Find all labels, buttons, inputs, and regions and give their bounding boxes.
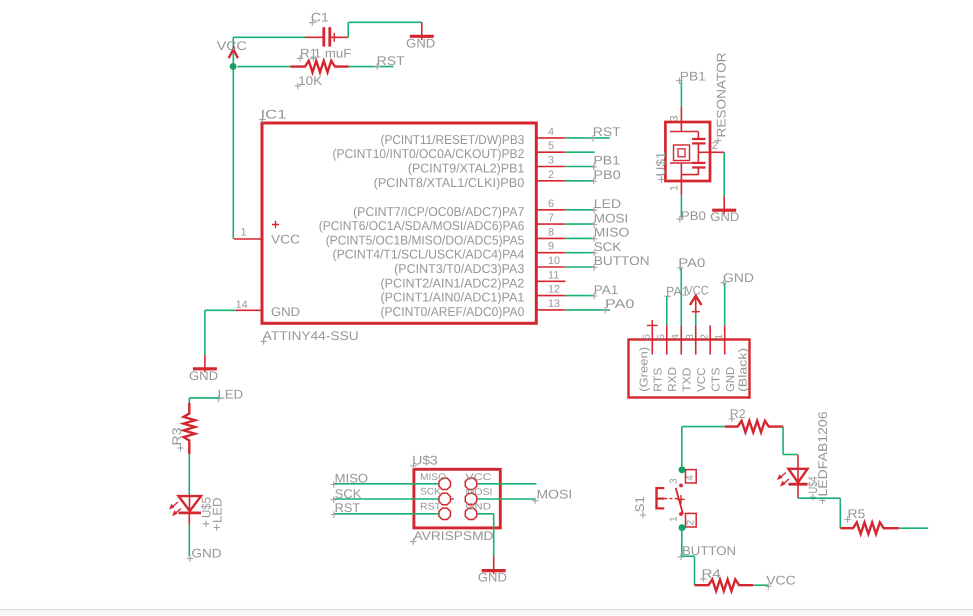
net label LED (left branch) [215, 387, 243, 402]
label R3 (rotated) [170, 428, 184, 452]
svg-text:PB1: PB1 [593, 154, 620, 168]
svg-text:LED: LED [594, 197, 621, 211]
wire from IC pin at y=152.2 [565, 151, 595, 153]
wire R5 output [899, 527, 928, 529]
svg-text:2: 2 [700, 334, 711, 340]
svg-text:(PCINT2/AIN1/ADC2)PA2: (PCINT2/AIN1/ADC2)PA2 [381, 275, 525, 290]
net label GND (below U$5) [187, 547, 222, 562]
wire VCC vertical to IC pin 1 [232, 37, 234, 239]
net label RST (at R1) [374, 54, 405, 70]
net label BUTTON (at S1) [678, 544, 736, 560]
svg-text:(PCINT0/AREF/ADC0)PA0: (PCINT0/AREF/ADC0)PA0 [381, 304, 525, 319]
ISP pads right column [465, 478, 476, 519]
wire ISP GND right [477, 513, 494, 515]
net label PA0 (FTDI) [677, 256, 705, 271]
label R1 [297, 46, 317, 61]
svg-text:(Black): (Black) [738, 348, 750, 392]
pin 10 stub (PA3) [536, 255, 565, 267]
FTDI pin stub 1 [724, 325, 726, 354]
svg-text:(PCINT6/OC1A/SDA/MOSI/ADC6)PA6: (PCINT6/OC1A/SDA/MOSI/ADC6)PA6 [319, 218, 525, 233]
svg-text:9: 9 [548, 241, 554, 253]
switch S1 [657, 470, 697, 527]
wire IC pin 14 to GND (vertical) [204, 310, 206, 355]
net label SCK (IC right) [591, 240, 622, 256]
pin 11 stub (PA2) [536, 269, 565, 281]
svg-text:BUTTON: BUTTON [594, 254, 650, 268]
ground GND (below IC1) [189, 355, 218, 383]
unrouted cross (RTS pin) [647, 320, 658, 331]
wire S1 to BUTTON label [681, 528, 683, 557]
svg-text:GND: GND [710, 210, 739, 224]
net label RST (IC right) [590, 125, 621, 141]
svg-text:U$1: U$1 [654, 152, 668, 177]
value ATTINY44-SSU [260, 329, 358, 345]
wire from IC pin at y=180.8 [565, 180, 594, 182]
wire C1 to GND (vertical) [347, 22, 349, 37]
wire ISP GND down [493, 514, 495, 557]
svg-text:3: 3 [669, 115, 681, 121]
wire resonator pin 1 to PB0 label [680, 195, 682, 217]
wire TXD to PA0 label [680, 268, 682, 326]
wire R3 to LED U$5 [188, 454, 190, 496]
wire LED U$4 to R5 (vertical) [839, 498, 841, 528]
net label PA1 (IC right) [591, 283, 618, 299]
net label MISO (IC right) [591, 226, 630, 242]
label U$4 (rotated) [806, 477, 820, 501]
wire LED U$5 to GND label [188, 525, 190, 557]
svg-text:VCC: VCC [766, 574, 796, 588]
svg-text:GND: GND [466, 502, 492, 513]
svg-text:(PCINT3/T0/ADC3)PA3: (PCINT3/T0/ADC3)PA3 [394, 261, 524, 276]
wire from IC pin at y=209.8 [565, 209, 594, 211]
svg-text:MOSI: MOSI [594, 211, 629, 225]
svg-text:MOSI: MOSI [466, 487, 493, 498]
svg-text:(PCINT1/AIN0/ADC1)PA1: (PCINT1/AIN0/ADC1)PA1 [381, 290, 525, 305]
label U$1 (rotated) [654, 152, 668, 183]
svg-text:1 muF: 1 muF [314, 46, 352, 60]
net label MOSI (IC right) [591, 211, 628, 227]
pin 4 stub (PB3) [536, 126, 565, 138]
label S1 (rotated) [633, 496, 647, 518]
LED U$4 [777, 455, 808, 499]
label U$5 (rotated) [200, 497, 214, 527]
svg-text:(PCINT8/XTAL1/CLKI)PB0: (PCINT8/XTAL1/CLKI)PB0 [374, 175, 525, 190]
label R5 [844, 507, 865, 523]
ground GND (top, at C1) [406, 22, 435, 50]
svg-text:8: 8 [548, 226, 554, 238]
net label MOSI (ISP right) [532, 488, 572, 504]
connector FTDI header body [629, 340, 750, 398]
resistor R4 [695, 579, 754, 591]
net label PA1 (FTDI) [665, 284, 689, 299]
svg-text:2: 2 [548, 169, 554, 181]
svg-text:VCC: VCC [696, 368, 708, 392]
svg-text:AVRISPSMD: AVRISPSMD [414, 529, 494, 543]
wire resonator pin 2 to GND [723, 152, 725, 196]
wire BUTTON down to R4 [694, 556, 696, 585]
net label LED (IC right) [591, 197, 621, 213]
svg-text:3: 3 [548, 155, 554, 167]
pin 2 stub (PB0) [536, 169, 565, 181]
label IC1 [259, 107, 286, 122]
net label PB0 (IC right) [591, 168, 621, 184]
value RESONATOR (rotated) [715, 53, 729, 144]
svg-text:3: 3 [685, 334, 696, 340]
svg-text:11: 11 [548, 269, 559, 281]
FTDI pin stub 5 [666, 325, 668, 354]
svg-text:(PCINT10/INT0/OC0A/CKOUT)PB2: (PCINT10/INT0/OC0A/CKOUT)PB2 [333, 146, 525, 161]
wire ISP MOSI right [477, 498, 535, 500]
svg-text:S1: S1 [633, 496, 647, 512]
power symbol VCC (FTDI) [690, 296, 702, 314]
value 10K (R1 value) [295, 74, 323, 89]
wire C1 to GND (horizontal) [348, 21, 422, 23]
svg-text:4: 4 [671, 334, 682, 340]
wire R2 to LED U$4 (horizontal) [783, 454, 797, 456]
power symbol VCC (top left) [229, 46, 238, 59]
net label PB1 (IC right) [591, 154, 621, 170]
label U$3 [410, 454, 438, 470]
svg-text:MISO: MISO [335, 472, 369, 486]
svg-text:13: 13 [548, 298, 560, 310]
svg-text:5: 5 [656, 334, 667, 340]
svg-text:GND: GND [723, 271, 754, 285]
svg-text:1: 1 [669, 185, 681, 191]
net label PA0 (IC right) [602, 297, 634, 313]
wire ISP VCC right [477, 483, 536, 485]
svg-text:6: 6 [642, 334, 653, 340]
svg-text:LEDFAB1206: LEDFAB1206 [816, 412, 830, 497]
svg-text:(PCINT4/T1/SCL/USCK/ADC4)PA4: (PCINT4/T1/SCL/USCK/ADC4)PA4 [333, 247, 525, 262]
svg-text:14: 14 [236, 299, 248, 311]
svg-text:10K: 10K [298, 74, 323, 88]
svg-text:1: 1 [714, 334, 725, 340]
wire from IC pin at y=295.6 [565, 295, 594, 297]
svg-text:PB0: PB0 [681, 209, 706, 223]
wire from IC pin at y=224.1 [565, 223, 594, 225]
svg-text:MISO: MISO [594, 226, 630, 240]
svg-text:ATTINY44-SSU: ATTINY44-SSU [263, 329, 359, 343]
svg-text:RST: RST [420, 501, 441, 512]
svg-text:RST: RST [377, 54, 405, 68]
svg-text:GND: GND [406, 36, 435, 50]
svg-text:4: 4 [685, 475, 696, 481]
pin 8 stub (PA5) [536, 226, 565, 238]
svg-text:RXD: RXD [667, 367, 679, 392]
wire LED label to R3 [188, 398, 190, 403]
svg-text:(PCINT5/OC1B/MISO/DO/ADC5)PA5: (PCINT5/OC1B/MISO/DO/ADC5)PA5 [326, 232, 525, 247]
junction S1 top [679, 466, 686, 473]
svg-text:LED: LED [218, 387, 244, 401]
wire SCK label to ISP [333, 498, 438, 500]
wire MISO label to ISP [333, 483, 438, 485]
svg-text:1: 1 [669, 516, 680, 522]
net label SCK (ISP left) [331, 487, 362, 503]
resonator U$1 body [665, 107, 711, 181]
wire RST label to ISP [333, 513, 438, 515]
svg-text:PA0: PA0 [605, 297, 634, 311]
resistor R2 [725, 421, 783, 433]
pin stub SCK pad [451, 498, 454, 500]
pin 9 stub (PA4) [536, 241, 565, 253]
svg-text:RTS: RTS [653, 367, 665, 392]
svg-text:GND: GND [271, 305, 300, 319]
capacitor C1 [305, 27, 348, 46]
wire from IC pin at y=238.4 [565, 237, 594, 239]
pin 1 stub (resonator) [680, 181, 682, 195]
svg-text:RESONATOR: RESONATOR [715, 53, 729, 138]
wire down to S1 pin 4 [681, 427, 683, 470]
net label BUTTON (IC right) [591, 254, 650, 270]
IC IC1 ATTINY44-SSU body [262, 123, 536, 323]
value LED (rotated, U$5) [211, 498, 225, 531]
svg-text:10: 10 [548, 255, 560, 267]
svg-text:VCC: VCC [271, 233, 300, 247]
wire VCC pin to VCC symbol [695, 314, 697, 326]
svg-text:VCC: VCC [217, 39, 247, 53]
svg-text:(PCINT9/XTAL2)PB1: (PCINT9/XTAL2)PB1 [408, 161, 524, 176]
wire from IC pin at y=267.0 [565, 266, 595, 268]
svg-text:GND: GND [192, 547, 222, 561]
svg-text:R3: R3 [170, 428, 184, 446]
net label VCC (at R4) [765, 574, 796, 590]
svg-text:5: 5 [548, 140, 554, 152]
wire R2 to LED U$4 (vertical) [782, 427, 784, 455]
svg-text:7: 7 [548, 212, 554, 224]
wire from IC pin at y=166.5 [565, 166, 595, 168]
pin 6 stub (PA7) [536, 198, 565, 210]
svg-text:GND: GND [478, 571, 507, 585]
ISP pad labels [420, 472, 493, 513]
pin 3 stub (PB1) [536, 155, 565, 167]
svg-text:PB1: PB1 [680, 70, 706, 84]
svg-text:VCC: VCC [466, 472, 492, 483]
ISP pads left column [439, 478, 450, 519]
resistor R5 [840, 522, 899, 534]
svg-text:2: 2 [686, 520, 697, 526]
svg-text:SCK: SCK [335, 487, 362, 501]
svg-text:LED: LED [211, 498, 225, 524]
svg-text:(Green): (Green) [638, 347, 650, 392]
svg-text:TXD: TXD [682, 368, 694, 392]
wire PB1 to resonator pin 3 [680, 82, 682, 107]
svg-text:1: 1 [241, 226, 247, 238]
svg-text:SCK: SCK [420, 487, 442, 498]
FTDI pin stub 6 [651, 325, 653, 354]
svg-text:12: 12 [548, 284, 560, 296]
wire from IC pin at y=137.9 [565, 137, 610, 139]
svg-text:RST: RST [335, 501, 361, 515]
svg-text:GND: GND [189, 369, 218, 383]
FTDI pin stub 2 [709, 325, 711, 354]
value AVRISPSMD [410, 529, 494, 545]
net label MISO (ISP left) [331, 472, 369, 488]
connector U$3 AVRISPSMD body [414, 469, 500, 528]
pin 7 stub (PA6) [536, 212, 565, 224]
label R4 [700, 567, 721, 582]
wire VCC junction to R1 [238, 66, 291, 68]
net label PB0 (below resonator) [677, 209, 706, 223]
svg-text:VCC: VCC [686, 284, 709, 298]
value 1 muF (C1 value) [310, 46, 351, 61]
pin marker + (VCC inside IC1) [272, 221, 279, 228]
wire R4 to VCC label [753, 584, 769, 586]
FTDI pin stub 3 [695, 325, 697, 354]
svg-text:PA1: PA1 [594, 283, 618, 297]
wire IC pin 14 to GND (horizontal) [205, 309, 236, 311]
wire LED U$4 to R5 (horizontal) [798, 497, 840, 499]
label R2 [729, 407, 746, 422]
wire from IC pin at y=252.7 [565, 252, 595, 254]
junction VCC node [230, 63, 237, 70]
wire R1 to RST label [349, 66, 394, 68]
svg-text:MISO: MISO [420, 472, 446, 483]
svg-text:(PCINT7/ICP/OC0B/ADC7)PA7: (PCINT7/ICP/OC0B/ADC7)PA7 [353, 204, 524, 219]
pin 12 stub (PA1) [536, 284, 565, 296]
wire GND pin to GND label [724, 282, 726, 325]
net label GND (FTDI) [721, 271, 755, 286]
wire LED label horizontal [189, 397, 218, 399]
status bar (window chrome) [0, 604, 973, 609]
ground GND (below ISP) [478, 557, 507, 585]
value LEDFAB1206 (rotated) [816, 412, 830, 504]
pin 5 stub (PB2) [536, 140, 565, 152]
svg-text:CTS: CTS [711, 367, 723, 392]
wire BUTTON jog horizontal [682, 555, 695, 557]
svg-text:3: 3 [669, 478, 680, 484]
wire from IC pin at y=309.9 [565, 309, 610, 311]
pin 1 stub (VCC) [234, 226, 262, 239]
junction S1 bottom [679, 524, 686, 531]
svg-text:RST: RST [593, 125, 621, 139]
net label RST (ISP left) [331, 501, 361, 518]
wire RXD to PA1 label [666, 296, 668, 325]
wire VCC net to C1 [233, 36, 305, 38]
svg-text:6: 6 [548, 198, 554, 210]
svg-text:GND: GND [725, 367, 737, 392]
LED U$5 [169, 496, 201, 524]
pin 14 stub (GND) [236, 299, 262, 311]
label C1 [309, 11, 329, 26]
wire S1 to R2 [682, 426, 725, 428]
svg-text:4: 4 [548, 126, 554, 138]
svg-text:PB0: PB0 [593, 168, 620, 182]
svg-text:(PCINT11/RESET/DW)PB3: (PCINT11/RESET/DW)PB3 [381, 132, 525, 147]
net label PB1 (above resonator) [676, 70, 706, 84]
resistor R3 [184, 403, 196, 454]
svg-text:SCK: SCK [594, 240, 622, 254]
FTDI pin stub 4 [680, 325, 682, 354]
resistor R1 [290, 61, 348, 73]
svg-text:2: 2 [712, 140, 718, 152]
pin 2 stub (resonator) [711, 140, 724, 153]
svg-text:MOSI: MOSI [537, 488, 573, 502]
pin 13 stub (PA0) [536, 298, 565, 310]
ground GND (at resonator) [710, 196, 739, 224]
